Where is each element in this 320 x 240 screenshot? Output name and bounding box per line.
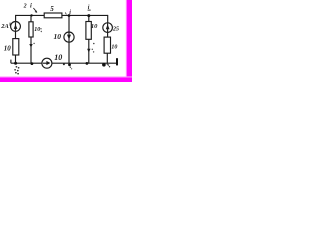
arrowhead branch x=88.8 current down: [87, 49, 90, 53]
svg-text:10: 10: [54, 53, 62, 62]
wire shunt branch lower: [30, 37, 32, 63]
arrowhead Is2 up: [106, 24, 110, 29]
specks bottom right label: [107, 63, 108, 64]
current source Is3 arrow line: [43, 62, 49, 64]
svg-text:i: i: [30, 3, 32, 10]
wire middle branch upper: [68, 15, 70, 33]
current source Is1 circle: [11, 22, 21, 32]
svg-text:25: 25: [112, 27, 119, 33]
resistor R5 box right: [104, 37, 110, 53]
resistor R1 box left: [13, 39, 19, 55]
junction dot bottom shunt branch: [31, 62, 34, 65]
current source Is2 circle right: [103, 23, 113, 33]
wire top rail: [16, 14, 108, 16]
svg-text:10: 10: [34, 27, 40, 33]
magenta highlight stripe bottom: [0, 77, 132, 82]
current source Is3 circle bottom: [42, 58, 52, 68]
arrowhead Is3 right: [46, 61, 50, 65]
svg-text:5: 5: [50, 5, 54, 13]
resistor R4 box: [86, 22, 91, 40]
junction dot top branch x=88.8: [87, 14, 90, 17]
wire left branch upper: [15, 15, 17, 22]
terminal end bar bottom right: [116, 58, 118, 65]
junction dot top shunt branch: [30, 14, 32, 16]
junction dot bottom right branch: [102, 63, 106, 67]
wire shunt branch upper x=31.4: [30, 15, 32, 22]
resistor R3 box top rail: [44, 13, 62, 18]
arrowhead U1 down: [67, 35, 71, 40]
source U1 arrow: [68, 33, 70, 42]
svg-text:10: 10: [111, 45, 117, 51]
specks label near branch 88 arrow: [92, 49, 93, 50]
wire middle branch lower: [68, 42, 70, 63]
speck right of R4 bottom: [93, 43, 95, 45]
speck left of middle bottom junction: [63, 63, 65, 65]
wire bottom rail: [11, 62, 116, 64]
specks below wire mid: [70, 67, 71, 68]
source U1 circle middle: [64, 32, 74, 42]
arrowhead shunt branch current down: [29, 44, 32, 48]
resistor R2 box shunt branch: [29, 22, 33, 37]
svg-text:2: 2: [23, 4, 27, 10]
wire branch x=88.8 lower: [88, 39, 90, 63]
junction dot top middle branch: [68, 14, 71, 17]
svg-text:2A: 2A: [0, 23, 9, 30]
svg-text:10: 10: [4, 44, 12, 52]
wire left branch lower: [15, 55, 17, 63]
svg-text:10: 10: [54, 32, 62, 41]
arrow for label i top: [33, 8, 36, 12]
wire right branch lower: [106, 53, 108, 63]
current source Is1 arrow: [15, 22, 17, 31]
tick left of i middle: [65, 12, 66, 14]
wire right branch upper: [107, 15, 109, 23]
arrow under label i right junction: [88, 9, 91, 11]
wire branch x=88.8 upper: [88, 15, 90, 21]
svg-text:10: 10: [91, 23, 98, 30]
magenta highlight stripe right: [127, 0, 133, 82]
wire right branch middle: [107, 32, 109, 37]
speck near shunt arrow: [33, 43, 34, 44]
junction dot bottom branch x=88.8: [86, 62, 89, 65]
wire bottom-left stub: [10, 60, 12, 64]
specks bottom-left scatter: [16, 66, 18, 68]
junction dot bottom middle branch: [68, 63, 71, 66]
junction dot bottom left branch: [14, 62, 17, 65]
specks left of middle label: [40, 28, 41, 29]
wire left branch middle: [15, 31, 17, 38]
current source Is2 arrow: [107, 24, 109, 33]
arrowhead Is1 up: [14, 24, 18, 29]
label A tick: [9, 23, 12, 26]
